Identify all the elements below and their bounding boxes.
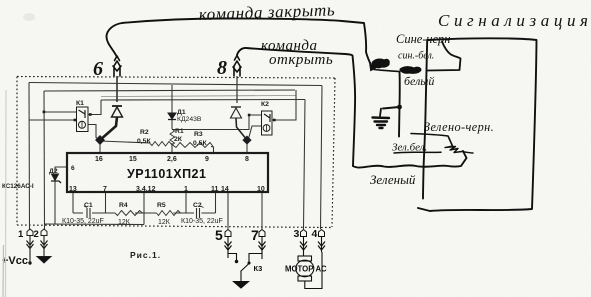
svg-text:Д2: Д2 [49, 168, 58, 175]
svg-text:R5: R5 [157, 202, 166, 209]
handwritten annotations [106, 19, 536, 212]
svg-text:УР1101ХП21: УР1101ХП21 [127, 167, 206, 181]
terminal 3 [294, 228, 308, 252]
svg-text:1: 1 [184, 186, 188, 193]
svg-text:8: 8 [217, 57, 227, 79]
resistor R2 zigzag [150, 142, 172, 147]
wire pin11 down [215, 192, 217, 213]
chip pin labels top [71, 156, 249, 172]
wire komanda otkryt [237, 48, 355, 166]
rail under chip [73, 212, 216, 214]
svg-text:R3: R3 [194, 131, 203, 138]
svg-text:10: 10 [257, 186, 265, 193]
wire node A to R2 [100, 141, 150, 143]
connector blob 1 [372, 59, 389, 68]
wire K1 coil to node A [88, 125, 100, 141]
zener D2 symbol [51, 174, 61, 183]
wire green long vertical [423, 40, 427, 199]
wire pin10 down to terminal 7 [261, 192, 263, 229]
wire D1 to R1 [171, 120, 173, 129]
wire K1 pin lower left [29, 119, 77, 121]
svg-text:1: 1 [18, 229, 24, 240]
switch K3 [228, 252, 262, 288]
pin marks [43, 111, 276, 122]
terminal 4 [312, 228, 326, 252]
svg-text:9: 9 [205, 156, 209, 163]
svg-text:МОТОР АС: МОТОР АС [285, 265, 327, 274]
terminal 8 connector [233, 61, 241, 76]
wire K2 coil to node B [247, 126, 262, 140]
terminal 2 [34, 229, 52, 263]
dotted enclosure border [17, 77, 335, 79]
svg-text:15: 15 [129, 156, 137, 163]
svg-text:7: 7 [103, 186, 107, 193]
relay K1 [77, 107, 89, 132]
wire bus line3 [101, 99, 305, 102]
signalizatsiya box [418, 38, 537, 211]
wire bus line1 top [29, 83, 322, 86]
diode VD1 (terminal 6 branch, bold) [100, 106, 123, 140]
svg-text:0,5К: 0,5К [137, 138, 151, 145]
terminal 1 [18, 229, 34, 264]
svg-text:14: 14 [221, 186, 229, 193]
svg-text:6: 6 [71, 165, 75, 172]
node A junction dot [95, 135, 105, 145]
svg-text:16: 16 [95, 156, 103, 163]
svg-text:11: 11 [211, 186, 219, 193]
wire zakryt bottom wavy [353, 151, 467, 168]
svg-text:2: 2 [34, 229, 39, 240]
wire komanda zakryt [106, 19, 371, 67]
svg-text:Сигнализация: Сигнализация [438, 11, 591, 30]
wire D1 branch vertical [171, 85, 173, 113]
svg-text:К10-35, 22uF: К10-35, 22uF [181, 218, 223, 225]
svg-text:Зел.бел.: Зел.бел. [392, 142, 427, 154]
svg-text:Зелено-черн.: Зелено-черн. [424, 120, 494, 134]
gnd rail bottom left [44, 223, 144, 226]
svg-text:12К: 12К [158, 219, 171, 226]
diode VD2 (terminal 8 branch) [231, 107, 248, 140]
svg-text:7: 7 [251, 227, 259, 243]
svg-text:R2: R2 [140, 129, 149, 136]
svg-text:3: 3 [294, 228, 300, 240]
wire loop from box top to connector [428, 42, 461, 71]
terminal 7 [251, 227, 266, 259]
wire to gnd junction [398, 72, 401, 137]
wire bus line2 [44, 90, 295, 91]
wire R3 right to chip pin 9 [211, 147, 214, 154]
chip U1 УР1101ХП21 [67, 153, 268, 192]
wire left vertical x44 [43, 91, 46, 229]
wire right vertical to terminal 4 [321, 86, 323, 230]
wire pin1 down [185, 192, 187, 213]
svg-text:син.-бел.: син.-бел. [398, 51, 434, 62]
wire zener to chip pin6 [55, 167, 67, 173]
wire pin13 down [72, 192, 74, 213]
relay K2 [262, 111, 273, 135]
svg-text:КС126АС-I: КС126АС-I [2, 183, 34, 190]
wire terminal8 down to diode VD2 [236, 76, 238, 103]
svg-text:2К: 2К [174, 136, 183, 143]
wire node A down to pin 16 [99, 140, 101, 153]
node B junction dot [242, 135, 251, 144]
svg-text:R4: R4 [119, 202, 128, 209]
motor M1 [296, 252, 322, 289]
connector blob 2 [400, 67, 421, 74]
resistor R4 zigzag [115, 211, 143, 216]
wire R1 bottom to chip pin 2,6 [171, 143, 173, 153]
svg-text:Сине-черн: Сине-черн [396, 32, 450, 46]
wire junction to ground [383, 107, 399, 109]
svg-text:К3: К3 [254, 264, 263, 273]
wire K1 pin upper left [44, 111, 77, 113]
wire K1 upper right pin to line3 [88, 100, 101, 115]
chip pin labels bottom [69, 186, 265, 193]
diode D1 symbol [168, 113, 176, 120]
svg-text:Зеленый: Зеленый [370, 172, 416, 187]
svg-text:С1: С1 [84, 202, 93, 209]
scan artifact left edge [5, 90, 8, 297]
svg-text:5: 5 [215, 227, 223, 243]
ground [380, 109, 381, 117]
svg-text:R1: R1 [175, 128, 184, 135]
svg-text:3,4,12: 3,4,12 [136, 186, 156, 193]
svg-text:белый: белый [404, 74, 434, 88]
wire bus line3 shadow [101, 96, 296, 97]
svg-text:12К: 12К [118, 219, 131, 226]
resistor R5 zigzag [157, 211, 181, 216]
zel-bel knot scribble [445, 146, 462, 153]
wire node B down to pin 8 [246, 140, 248, 153]
wire R1 top to K2 contact [172, 115, 262, 130]
handwritten texts (cursive imitation) [93, 0, 591, 187]
svg-text:открыть: открыть [269, 52, 333, 68]
wire zener down to gnd rail [54, 181, 56, 224]
svg-text:6: 6 [93, 58, 103, 80]
wire pin 3,4,12 down [143, 192, 145, 225]
wire terminal6 down to diode VD1 [116, 76, 118, 102]
wire pin7 down [105, 192, 107, 213]
svg-text:К1: К1 [76, 100, 84, 107]
svg-text:0,5К: 0,5К [193, 140, 207, 147]
arrow into blob1 [370, 64, 378, 72]
svg-text:13: 13 [69, 186, 77, 193]
svg-text:Рис.1.: Рис.1. [130, 250, 161, 260]
component labels printed [49, 100, 269, 209]
capacitor C1 [84, 206, 90, 218]
zel-bel pointer line [411, 134, 453, 147]
wire pin14 down to terminal 5 [227, 192, 229, 229]
junction dot [397, 105, 402, 110]
wire left vertical x29 [28, 83, 31, 230]
capacitor C2 [197, 206, 204, 218]
svg-text:4: 4 [312, 228, 318, 240]
resistor R3 zigzag [172, 143, 213, 148]
svg-text:К10-35, 22uF: К10-35, 22uF [62, 218, 104, 225]
zel-bel underline [394, 151, 441, 154]
terminal 5 [215, 227, 232, 258]
wire right vertical to terminal 3 [304, 100, 306, 230]
resistor R1 zigzag vertical [170, 129, 175, 145]
wire right vertical k2 [272, 90, 296, 120]
svg-text:С2: С2 [193, 202, 202, 209]
knot tail [462, 152, 473, 154]
terminal 6 connector [113, 61, 121, 76]
svg-text:8: 8 [245, 156, 249, 163]
svg-text:КД243В: КД243В [177, 116, 202, 123]
svg-text:К2: К2 [261, 101, 269, 108]
svg-text:2,6: 2,6 [167, 156, 177, 163]
svg-text:Д1: Д1 [177, 109, 186, 116]
